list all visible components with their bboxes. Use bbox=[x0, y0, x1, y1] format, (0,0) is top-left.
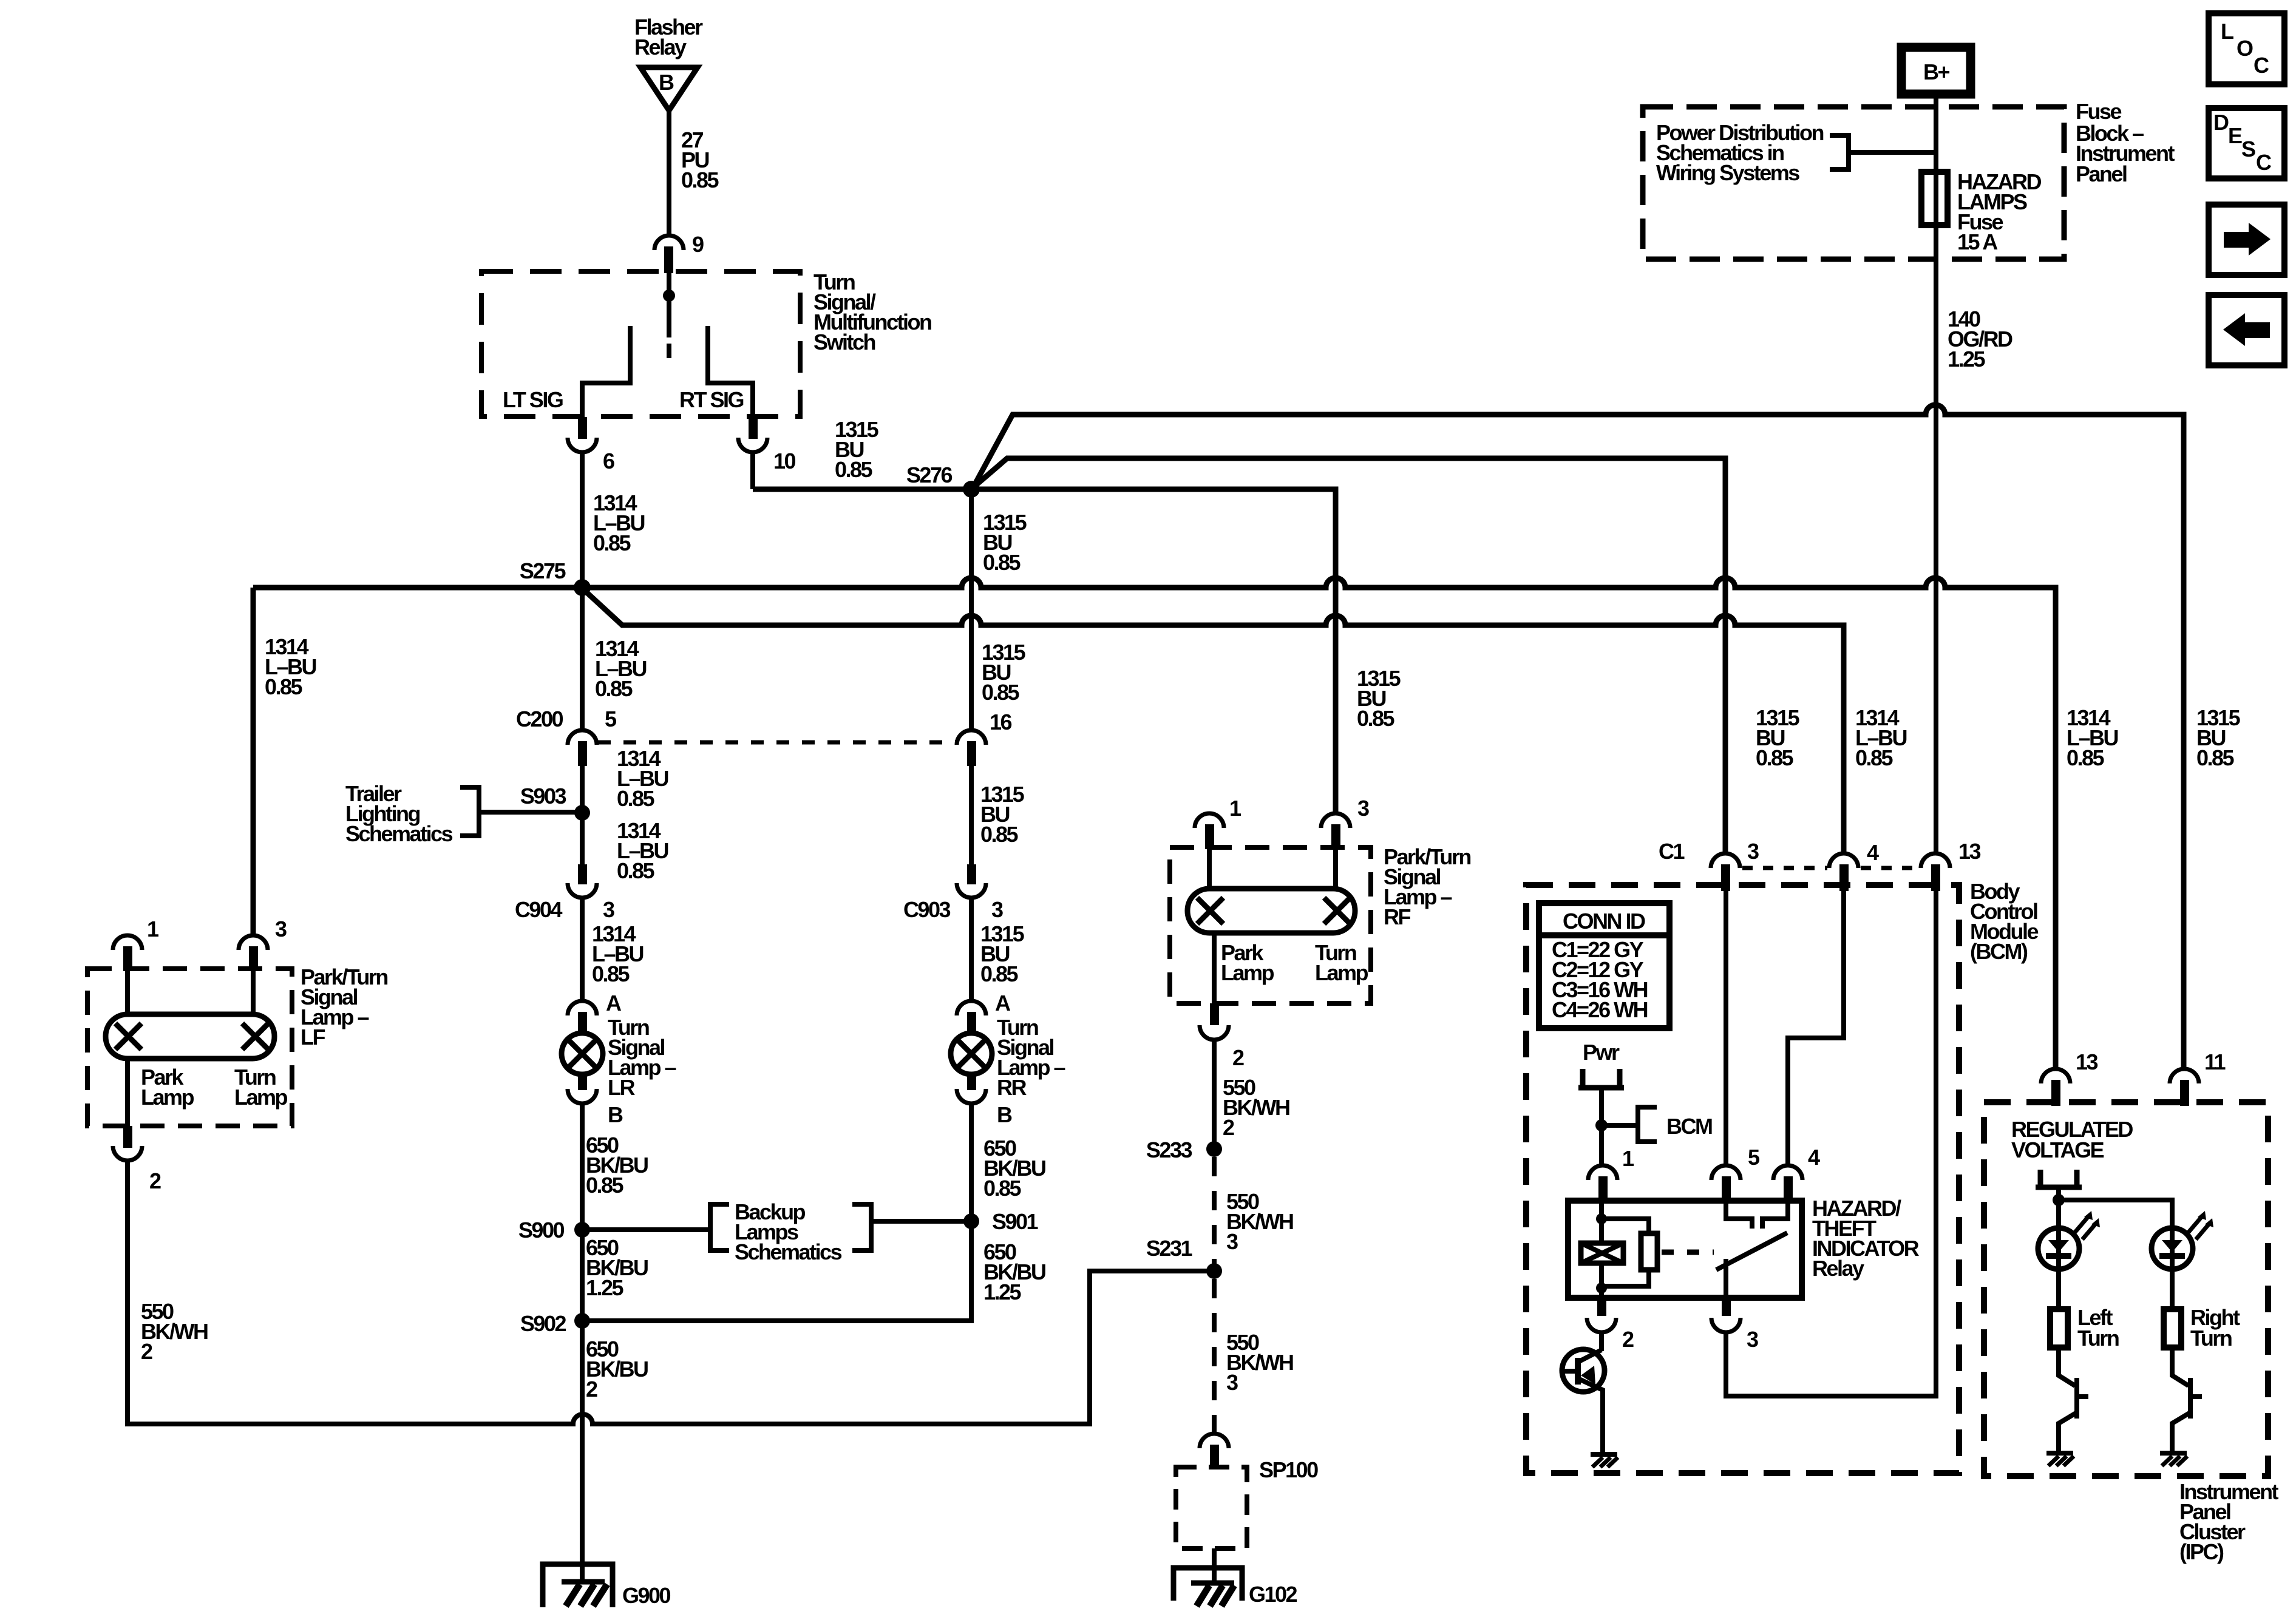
IPC left transistor bbox=[2059, 1347, 2088, 1452]
node S276 bbox=[963, 481, 980, 498]
wire label 650 BK/BU 2 bbox=[586, 1337, 648, 1402]
svg-text:Pwr: Pwr bbox=[1583, 1040, 1620, 1065]
connector RF pin 1 bbox=[1195, 796, 1241, 849]
IPC label bbox=[2179, 1479, 2279, 1564]
svg-text:RF: RF bbox=[1384, 904, 1410, 929]
C200 dashed connector line bbox=[598, 741, 957, 745]
wire Pwr to node bbox=[1599, 1090, 1604, 1165]
dashed wire S233 to S231 bbox=[1212, 1157, 1217, 1271]
svg-text:Relay: Relay bbox=[634, 35, 687, 59]
wire S903 to C904 bbox=[580, 813, 585, 867]
node S275 bbox=[574, 579, 591, 596]
wire label 650 BK/BU 1.25 bbox=[983, 1239, 1045, 1304]
wire label 550 BK/WH 2 bbox=[141, 1299, 208, 1364]
relay coil box with X bbox=[1581, 1243, 1623, 1263]
wire RF pin2 to S233 bbox=[1212, 1040, 1217, 1149]
wire labels 1314 L-BU 0.85 at IPC pin 13 bbox=[2067, 705, 2118, 770]
node S901 bbox=[963, 1213, 979, 1229]
wire label 650 BK/BU 1.25 bbox=[586, 1235, 648, 1300]
svg-text:0.85: 0.85 bbox=[835, 457, 873, 482]
svg-text:4: 4 bbox=[1867, 840, 1879, 865]
svg-text:A: A bbox=[606, 991, 622, 1015]
wire reg voltage to node bbox=[2056, 1187, 2061, 1229]
svg-text:S231: S231 bbox=[1146, 1236, 1193, 1261]
Pwr supply symbol bbox=[1578, 1069, 1624, 1088]
ground G102 bbox=[1173, 1568, 1297, 1607]
connector IPC pin 11 bbox=[2170, 1049, 2226, 1106]
svg-text:11: 11 bbox=[2204, 1049, 2226, 1074]
svg-text:A: A bbox=[995, 991, 1011, 1015]
svg-text:0.85: 0.85 bbox=[983, 1176, 1022, 1201]
turn signal / multifunction switch dashed box bbox=[481, 271, 800, 416]
svg-text:0.85: 0.85 bbox=[2067, 745, 2105, 770]
ground G900 bbox=[543, 1564, 671, 1608]
svg-text:2: 2 bbox=[141, 1339, 152, 1364]
svg-text:Lamp: Lamp bbox=[1315, 960, 1368, 985]
svg-text:S: S bbox=[2241, 137, 2255, 161]
node reg voltage bbox=[2053, 1194, 2065, 1206]
relay switch pivot wire bbox=[1724, 1259, 1728, 1298]
svg-text:Turn: Turn bbox=[2077, 1326, 2119, 1351]
wire label 650 BK/BU 0.85 bbox=[983, 1136, 1045, 1201]
resistor left turn bbox=[2050, 1305, 2119, 1351]
svg-text:VOLTAGE: VOLTAGE bbox=[2011, 1137, 2104, 1162]
svg-text:B: B bbox=[608, 1102, 623, 1127]
wire C1-4 to relay pin 4 bbox=[1788, 891, 1844, 1165]
svg-text:1: 1 bbox=[1622, 1146, 1634, 1171]
turn lamp label RF bbox=[1315, 940, 1368, 985]
node S233 bbox=[1206, 1141, 1222, 1157]
svg-text:B+: B+ bbox=[1923, 59, 1949, 84]
svg-text:L: L bbox=[2221, 19, 2233, 44]
dashed wire S231 to SP100 bbox=[1212, 1279, 1217, 1434]
svg-text:S233: S233 bbox=[1146, 1137, 1192, 1162]
IPC right transistor bbox=[2172, 1347, 2202, 1452]
node relay coil top bbox=[1596, 1213, 1607, 1224]
flasher relay label bbox=[634, 15, 703, 59]
LED right light arrows bbox=[2189, 1216, 2210, 1239]
svg-text:3: 3 bbox=[1747, 1327, 1758, 1352]
svg-text:0.85: 0.85 bbox=[1756, 745, 1794, 770]
wire B+ down through fuse bbox=[1934, 94, 1938, 853]
wire label 140 OG/RD 1.25 bbox=[1948, 307, 2012, 371]
connector B left bbox=[568, 1073, 623, 1127]
relay coil wire top bbox=[1599, 1201, 1604, 1243]
svg-text:Turn: Turn bbox=[2190, 1326, 2232, 1351]
svg-text:0.85: 0.85 bbox=[980, 961, 1019, 986]
connector pin 9 bbox=[654, 232, 704, 273]
svg-text:13: 13 bbox=[1958, 839, 1981, 864]
wire labels 1315 BU 0.85 at BCM pin 3 bbox=[1756, 705, 1800, 770]
relay actuator dashed link bbox=[1662, 1250, 1714, 1255]
fuse block dashed box bbox=[1643, 107, 2064, 259]
turn signal lamp RR bbox=[951, 1015, 1065, 1100]
svg-text:0.85: 0.85 bbox=[617, 786, 655, 811]
wire S901 down and over to S902 bbox=[582, 1221, 971, 1321]
svg-text:13: 13 bbox=[2076, 1049, 2098, 1074]
relay label bbox=[1812, 1196, 1920, 1281]
connector RF pin 2 bbox=[1200, 1003, 1244, 1070]
svg-text:S900: S900 bbox=[518, 1218, 565, 1242]
connector C200 pin 16 bbox=[957, 710, 1012, 766]
splice pack SP100 dashed box bbox=[1176, 1467, 1247, 1548]
connector C903 bbox=[903, 864, 1003, 922]
regulated voltage supply symbol bbox=[2036, 1170, 2082, 1187]
LED left light arrows bbox=[2075, 1216, 2096, 1239]
wire S900 to S902 bbox=[580, 1230, 585, 1321]
svg-text:16: 16 bbox=[990, 710, 1012, 734]
node on wiper bbox=[663, 290, 675, 302]
bus 1315 to BCM pin 3 bbox=[973, 458, 1725, 853]
svg-text:Lamp: Lamp bbox=[141, 1085, 194, 1110]
svg-text:S901: S901 bbox=[992, 1209, 1039, 1234]
B+ power symbol bbox=[1901, 47, 1971, 94]
svg-text:Switch: Switch bbox=[813, 330, 875, 354]
RF lamp bulb pill bbox=[1187, 889, 1355, 933]
svg-text:1.25: 1.25 bbox=[1948, 347, 1986, 371]
switch contact RT bbox=[708, 326, 753, 418]
svg-text:Panel: Panel bbox=[2076, 161, 2127, 186]
connector pin 10 bbox=[738, 417, 796, 473]
wire flasher to connector 9 bbox=[667, 110, 671, 237]
wire C1-13 to relay pin 3 bbox=[1726, 891, 1936, 1396]
svg-text:0.85: 0.85 bbox=[2196, 745, 2235, 770]
svg-text:Schematics: Schematics bbox=[735, 1239, 842, 1264]
svg-text:1: 1 bbox=[147, 917, 159, 941]
wire left LED to resistor bbox=[2056, 1269, 2061, 1309]
svg-text:O: O bbox=[2237, 36, 2253, 61]
svg-text:BCM: BCM bbox=[1666, 1114, 1712, 1139]
svg-text:Lamp: Lamp bbox=[234, 1085, 288, 1110]
forward arrow box bbox=[2209, 205, 2284, 275]
wire trailer to S903 bbox=[479, 810, 582, 815]
wire pin 6 to S275 bbox=[580, 452, 585, 588]
svg-text:Lamp: Lamp bbox=[1221, 960, 1274, 985]
svg-text:1: 1 bbox=[1229, 796, 1241, 821]
wire C1-3 to relay pin 5 bbox=[1724, 891, 1728, 1165]
connector relay pin 3 bbox=[1711, 1297, 1758, 1352]
connector LF pin 2 bbox=[113, 1126, 161, 1193]
svg-text:D: D bbox=[2213, 110, 2229, 135]
svg-text:RR: RR bbox=[997, 1075, 1027, 1100]
svg-text:C4=26 WH: C4=26 WH bbox=[1552, 997, 1648, 1022]
park/turn signal lamp RF dashed box bbox=[1170, 847, 1371, 1003]
wire LF pin3 to bulb bbox=[251, 971, 256, 1017]
wire labels 1315 BU 0.85 at RF pin 3 bbox=[1357, 666, 1401, 731]
wire LF pin1 to bulb bbox=[125, 971, 130, 1017]
connector pin 6 bbox=[568, 417, 614, 473]
svg-text:0.85: 0.85 bbox=[983, 550, 1021, 575]
RF lamp label bbox=[1384, 844, 1470, 929]
wire label 1315 BU 0.85 bbox=[980, 921, 1025, 986]
svg-text:2: 2 bbox=[1232, 1045, 1244, 1070]
switch label bbox=[813, 269, 931, 354]
relay fixed contact from pin 4 bbox=[1762, 1201, 1788, 1229]
wire B to S901 bbox=[969, 1103, 974, 1221]
LF park filament X bbox=[115, 1023, 141, 1049]
fuse HAZARD LAMPS 15A bbox=[1921, 169, 2041, 254]
LED right turn indicator bbox=[2152, 1228, 2193, 1269]
bus 1315 to IPC pin 11 with hop bbox=[973, 405, 2184, 1069]
svg-text:C200: C200 bbox=[516, 707, 563, 731]
svg-text:B: B bbox=[659, 70, 674, 95]
park/turn signal lamp LF dashed box bbox=[87, 969, 292, 1126]
wire pin 2 to transistor bbox=[1599, 1332, 1604, 1351]
CONN ID table bbox=[1539, 903, 1669, 1028]
wire backup bracket to S901 bbox=[871, 1219, 971, 1224]
backup lamps schematics brackets and label bbox=[710, 1199, 871, 1264]
bus S275 left-turn 1314 with hops, to IPC pin 13 bbox=[253, 578, 2056, 1069]
svg-text:5: 5 bbox=[1748, 1145, 1760, 1170]
svg-text:C904: C904 bbox=[515, 897, 563, 922]
relay suppression resistor bbox=[1601, 1219, 1657, 1286]
wire right LED to resistor bbox=[2170, 1269, 2175, 1309]
wire node to BCM bracket bbox=[1601, 1123, 1638, 1128]
wire label 550 BK/WH 3 bbox=[1226, 1189, 1293, 1254]
wire C200-5 to S903 bbox=[580, 766, 585, 813]
switch wiper movable tip bbox=[667, 344, 671, 358]
turn signal lamp LR bbox=[562, 1015, 676, 1100]
wire bracket to B+ feed bbox=[1849, 150, 1936, 155]
LED left turn indicator bbox=[2038, 1228, 2079, 1269]
svg-text:0.85: 0.85 bbox=[1357, 706, 1395, 731]
svg-text:4: 4 bbox=[1808, 1145, 1820, 1170]
ground IPC left bbox=[2046, 1453, 2074, 1466]
BCM label bbox=[1970, 879, 2038, 964]
wire B to S900 bbox=[580, 1103, 585, 1230]
wire switch wiper from pin 9 bbox=[667, 273, 671, 337]
svg-text:0.85: 0.85 bbox=[595, 676, 633, 701]
LF lamp bulb pill bbox=[106, 1014, 274, 1059]
connector C1 pin 3 bbox=[1659, 839, 1759, 891]
svg-text:SP100: SP100 bbox=[1259, 1457, 1318, 1482]
node relay coil bottom bbox=[1596, 1283, 1607, 1293]
connector A right bbox=[957, 991, 1011, 1034]
regulated voltage label bbox=[2011, 1117, 2133, 1162]
resistor right turn bbox=[2164, 1305, 2240, 1351]
trailer lighting schematics label bbox=[345, 781, 453, 846]
BCM bracket bbox=[1638, 1107, 1712, 1142]
svg-text:0.85: 0.85 bbox=[586, 1173, 624, 1198]
wire SP100 to ground G102 bbox=[1212, 1548, 1217, 1585]
svg-text:1.25: 1.25 bbox=[586, 1275, 624, 1300]
svg-text:G900: G900 bbox=[622, 1583, 671, 1608]
wire label 1315 BU 0.85 above C200 bbox=[982, 640, 1026, 705]
fuse block label bbox=[2076, 99, 2175, 186]
svg-text:B: B bbox=[997, 1102, 1012, 1127]
connector relay pin 4 bbox=[1773, 1145, 1820, 1201]
svg-text:1.25: 1.25 bbox=[983, 1280, 1022, 1304]
wire label 1314 L-BU 0.85 bbox=[265, 634, 316, 699]
wire label 1315 BU 0.85 bbox=[983, 510, 1027, 575]
svg-text:2: 2 bbox=[1622, 1327, 1634, 1352]
LF turn filament X bbox=[242, 1023, 268, 1049]
svg-text:3: 3 bbox=[275, 917, 287, 941]
wire RF park to pin 2 bbox=[1212, 933, 1217, 1005]
svg-text:2: 2 bbox=[1223, 1115, 1234, 1140]
svg-text:CONN ID: CONN ID bbox=[1563, 909, 1645, 934]
svg-text:0.85: 0.85 bbox=[681, 168, 719, 192]
BCM output transistor bbox=[1562, 1349, 1605, 1453]
svg-text:10: 10 bbox=[773, 449, 796, 473]
svg-text:6: 6 bbox=[603, 449, 614, 473]
svg-text:0.85: 0.85 bbox=[980, 822, 1019, 847]
wire label 1315 BU 0.85 bbox=[835, 417, 879, 482]
svg-text:LT SIG: LT SIG bbox=[503, 387, 563, 412]
svg-text:2: 2 bbox=[586, 1377, 597, 1402]
wire S276 down to C200 pin 16 bbox=[969, 489, 974, 730]
LOC box bbox=[2209, 13, 2284, 84]
wire label 550 BK/WH 3 bbox=[1226, 1330, 1293, 1395]
svg-text:(IPC): (IPC) bbox=[2179, 1539, 2224, 1564]
node S900 bbox=[574, 1222, 590, 1238]
relay switch blade bbox=[1716, 1233, 1787, 1270]
svg-text:S275: S275 bbox=[520, 558, 566, 583]
connector RF pin 3 bbox=[1321, 796, 1369, 849]
svg-text:S903: S903 bbox=[520, 784, 566, 808]
wire C903 to conn A bbox=[969, 898, 974, 1001]
LF lamp label bbox=[301, 964, 387, 1049]
svg-text:3: 3 bbox=[1747, 839, 1759, 864]
svg-text:(BCM): (BCM) bbox=[1970, 939, 2028, 964]
connector B right bbox=[957, 1073, 1012, 1127]
node S903 bbox=[574, 805, 590, 821]
wire pin 10 down to S276 bus bbox=[750, 452, 755, 489]
connector A left bbox=[568, 991, 622, 1034]
IPC dashed box bbox=[1984, 1102, 2268, 1476]
svg-text:3: 3 bbox=[1357, 796, 1369, 821]
ground BCM transistor bbox=[1591, 1454, 1618, 1467]
power distribution bracket bbox=[1830, 135, 1849, 169]
svg-text:Wiring Systems: Wiring Systems bbox=[1656, 160, 1799, 185]
svg-text:C1: C1 bbox=[1659, 839, 1685, 864]
wire label 650 BK/BU 0.85 bbox=[586, 1133, 648, 1198]
connector relay pin 1 bbox=[1588, 1146, 1634, 1201]
connector C200 pin 5 bbox=[516, 707, 617, 766]
svg-text:S902: S902 bbox=[520, 1311, 566, 1336]
ground IPC right bbox=[2160, 1453, 2187, 1466]
wire label 1314 L-BU 0.85 below S275 bbox=[595, 636, 647, 701]
wire label 27 PU 0.85 bbox=[681, 127, 719, 192]
svg-text:15 A: 15 A bbox=[1957, 229, 1998, 254]
wire S902 to ground G900 bbox=[580, 1321, 585, 1584]
svg-text:Schematics: Schematics bbox=[345, 821, 453, 846]
bus S276 1315 from pin 10 to RF lamp pin 3 bbox=[753, 489, 1336, 813]
connector IPC pin 13 bbox=[2041, 1049, 2098, 1106]
wire LF pin2 ground bus to S231 bbox=[127, 1161, 1214, 1424]
park lamp label LF bbox=[141, 1065, 194, 1110]
wire label 1314 L-BU 0.85 bbox=[617, 818, 668, 883]
connector relay pin 2 bbox=[1587, 1297, 1634, 1352]
svg-text:3: 3 bbox=[991, 897, 1003, 922]
svg-text:0.85: 0.85 bbox=[593, 531, 631, 555]
wire label 1315 BU 0.85 bbox=[980, 782, 1025, 847]
svg-text:Relay: Relay bbox=[1812, 1256, 1864, 1281]
connector C1 pin 4 bbox=[1829, 840, 1879, 891]
wire left branch to LF lamp pin 3 bbox=[251, 588, 256, 935]
wire label 1314 L-BU 0.85 bbox=[593, 490, 645, 555]
svg-text:0.85: 0.85 bbox=[617, 858, 655, 883]
connector C904 bbox=[515, 864, 614, 922]
svg-text:9: 9 bbox=[692, 232, 704, 257]
wire S900 to backup bracket bbox=[582, 1227, 709, 1232]
BCM dashed box bbox=[1526, 885, 1959, 1473]
wire label 1314 L-BU 0.85 bbox=[592, 921, 644, 986]
wire RF pin3 to bulb bbox=[1333, 849, 1338, 891]
hazard/theft indicator relay box bbox=[1568, 1201, 1802, 1298]
turn lamp label LF bbox=[234, 1065, 288, 1110]
wire C904 to conn A bbox=[580, 898, 585, 1001]
RF turn filament X bbox=[1324, 898, 1350, 924]
wire node to right LED branch bbox=[2059, 1200, 2172, 1229]
node BCM pwr bbox=[1595, 1119, 1608, 1131]
wire LF park to pin 2 bbox=[125, 1059, 130, 1128]
node S231 bbox=[1206, 1263, 1222, 1279]
svg-text:LR: LR bbox=[608, 1075, 635, 1100]
svg-text:0.85: 0.85 bbox=[265, 674, 303, 699]
relay coil wire bottom bbox=[1599, 1263, 1604, 1298]
back arrow box bbox=[2209, 295, 2284, 365]
wire labels 1315 BU 0.85 at IPC pin 11 bbox=[2196, 705, 2241, 770]
connector SP100 bbox=[1200, 1434, 1229, 1469]
svg-text:RT SIG: RT SIG bbox=[679, 387, 744, 412]
svg-text:3: 3 bbox=[1226, 1229, 1238, 1254]
svg-text:0.85: 0.85 bbox=[1855, 745, 1894, 770]
wire C903-16 segment bbox=[969, 766, 974, 867]
svg-text:G102: G102 bbox=[1249, 1582, 1297, 1607]
svg-text:C: C bbox=[2256, 150, 2272, 175]
svg-text:5: 5 bbox=[605, 707, 617, 731]
connector C1 pin 13 bbox=[1921, 839, 1981, 891]
wire S275 down to C200 pin 5 bbox=[580, 588, 585, 730]
bus 1314 to BCM pin 4 with hops bbox=[584, 590, 1844, 853]
svg-text:Fuse: Fuse bbox=[2076, 99, 2122, 124]
C1 dashed connector links bbox=[1742, 866, 1919, 870]
svg-text:C: C bbox=[2254, 53, 2269, 78]
connector LF pin 3 bbox=[239, 917, 287, 971]
power distribution label bbox=[1656, 120, 1824, 185]
trailer bracket bbox=[460, 787, 479, 836]
svg-text:3: 3 bbox=[603, 897, 614, 922]
connector relay pin 5 bbox=[1711, 1145, 1760, 1201]
svg-text:2: 2 bbox=[149, 1168, 161, 1193]
svg-text:0.85: 0.85 bbox=[982, 680, 1020, 705]
wire RF pin1 to bulb bbox=[1207, 849, 1212, 891]
connector LF pin 1 bbox=[113, 917, 159, 971]
svg-text:3: 3 bbox=[1226, 1370, 1238, 1395]
svg-text:S276: S276 bbox=[906, 463, 953, 487]
RF park filament X bbox=[1197, 898, 1223, 924]
svg-text:0.85: 0.85 bbox=[592, 961, 630, 986]
svg-text:C903: C903 bbox=[903, 897, 951, 922]
svg-text:E: E bbox=[2228, 123, 2242, 148]
relay fixed contact from pin 5 bbox=[1726, 1201, 1752, 1229]
svg-text:LF: LF bbox=[301, 1025, 325, 1049]
DESC box bbox=[2209, 108, 2284, 178]
switch contact LT bbox=[582, 326, 630, 418]
node S902 bbox=[574, 1313, 590, 1329]
wire label 550 BK/WH 2 bbox=[1223, 1075, 1289, 1140]
park lamp label RF bbox=[1221, 940, 1274, 985]
flasher relay triangle B bbox=[640, 67, 698, 110]
wire labels 1314 L-BU 0.85 at BCM pin 4 bbox=[1855, 705, 1907, 770]
wire label 1314 L-BU 0.85 bbox=[617, 746, 668, 811]
